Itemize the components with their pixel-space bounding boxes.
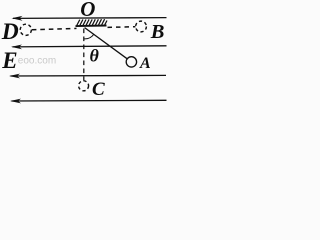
- svg-text:O: O: [80, 0, 95, 21]
- dashed ball position B: [136, 21, 147, 32]
- field line arrow 1 (top): [12, 16, 167, 21]
- dashed trajectory line D to bar: [32, 28, 77, 29]
- dashed ball position C: [79, 81, 89, 91]
- dashed trajectory line bar to B: [108, 26, 136, 29]
- svg-text:E: E: [1, 48, 17, 73]
- svg-text:eoo.com: eoo.com: [18, 55, 56, 66]
- ball A: [126, 57, 136, 67]
- string from pivot to ball: [85, 28, 128, 59]
- field line arrow 2: [11, 45, 167, 50]
- svg-text:C: C: [92, 79, 105, 100]
- svg-text:D: D: [1, 19, 19, 45]
- angle arc: [84, 34, 94, 39]
- svg-text:θ: θ: [90, 46, 100, 66]
- vertical dashed equilibrium line: [83, 29, 85, 81]
- svg-text:B: B: [150, 21, 165, 43]
- svg-text:A: A: [139, 55, 151, 72]
- field line arrow 4 (bottom): [10, 99, 167, 104]
- dashed ball position D: [20, 24, 31, 35]
- ceiling hatch bar: [76, 19, 108, 26]
- field line arrow 3: [9, 74, 166, 79]
